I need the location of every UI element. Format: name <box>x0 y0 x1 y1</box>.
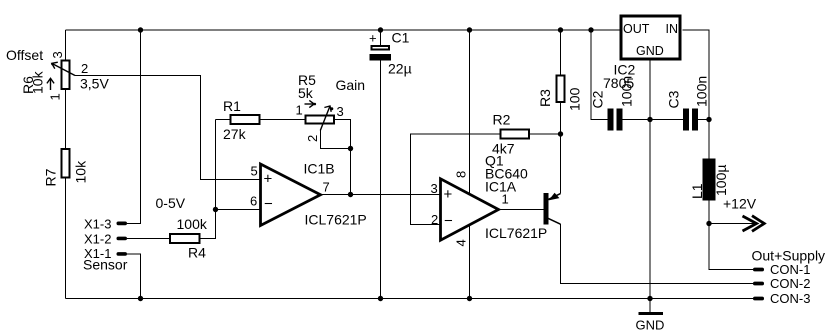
svg-text:2: 2 <box>305 135 320 142</box>
wire +12V node to supply arrow <box>709 223 756 225</box>
svg-text:7: 7 <box>323 180 330 195</box>
op-amp IC1A triangle <box>441 179 499 240</box>
svg-text:100k: 100k <box>177 216 208 232</box>
junction R4/R1/pin6 node <box>213 207 218 212</box>
wire X1-1 to ground rail <box>127 254 141 299</box>
junction +12V node <box>706 221 711 226</box>
voltage regulator IC2 box <box>621 16 680 59</box>
wire R1 left lead <box>216 119 230 121</box>
wire R2 feedback to IC1A pin2 <box>411 134 500 225</box>
svg-text:ICL7621P: ICL7621P <box>305 212 367 228</box>
resistor R3 body <box>557 76 565 103</box>
svg-text:100n: 100n <box>694 76 710 107</box>
wire R3 bottom to node <box>560 103 562 134</box>
wire GND column from IC2 <box>649 61 651 299</box>
wire C2 branch from rail <box>591 30 608 120</box>
junction R2/R3/Q1 emitter <box>558 131 563 136</box>
junction C1 on ground rail <box>378 296 383 301</box>
svg-text:8: 8 <box>454 171 469 178</box>
svg-text:3: 3 <box>337 104 344 119</box>
capacitor C3 plates <box>683 109 698 131</box>
R5 adjust arrow <box>305 100 317 107</box>
potentiometer R6 wiper arrow <box>51 62 75 75</box>
wire L1 bottom to +12V node <box>708 201 710 224</box>
svg-text:4: 4 <box>454 239 469 246</box>
wire R1 to R5 <box>260 119 305 121</box>
resistor R2 body <box>501 130 530 139</box>
wire pin6 node to IC1B <box>216 209 261 211</box>
wire IC1B output to IC1A pin3 <box>321 194 441 196</box>
wire R5 wiper to pin3 net <box>321 129 351 149</box>
wire C3 left lead <box>650 119 683 121</box>
svg-text:27k: 27k <box>223 126 247 142</box>
svg-text:Gain: Gain <box>336 77 366 93</box>
svg-text:2: 2 <box>431 212 438 227</box>
svg-text:5k: 5k <box>298 85 314 101</box>
svg-text:GND: GND <box>636 44 664 58</box>
svg-text:Offset: Offset <box>6 47 43 63</box>
svg-text:ICL7621P: ICL7621P <box>485 225 547 241</box>
wire C2 right to GND column <box>623 119 651 121</box>
capacitor C2 plates <box>608 109 623 131</box>
svg-text:CON-2: CON-2 <box>770 276 810 291</box>
op-amp IC1B triangle <box>261 164 321 226</box>
svg-text:R3: R3 <box>537 89 553 107</box>
wire R6 wiper to IC1B pin5 <box>75 76 261 180</box>
svg-text:C1: C1 <box>392 30 410 46</box>
inductor L1 body <box>703 159 716 201</box>
svg-text:3: 3 <box>431 181 438 196</box>
wire R6 bottom to R7 top <box>65 90 67 148</box>
supply arrow chevrons <box>743 216 765 232</box>
junction GND on ground rail <box>647 296 652 301</box>
junction X1-1 on ground rail <box>138 296 143 301</box>
junction C2 branch on rail <box>588 27 593 32</box>
wire IC2 IN to L1 column <box>683 30 710 159</box>
svg-text:10k: 10k <box>30 70 46 94</box>
wire R4 to IC1B pin6 node <box>200 120 216 239</box>
wire C3 right to IN column <box>698 119 709 121</box>
junction R5 net on IC1B output <box>348 192 353 197</box>
svg-text:C2: C2 <box>590 90 606 108</box>
wire Q1 emitter up to node <box>560 134 562 194</box>
svg-text:+: + <box>444 186 453 203</box>
svg-text:Sensor: Sensor <box>83 257 128 273</box>
svg-text:IN: IN <box>666 22 679 36</box>
svg-text:GND: GND <box>636 318 665 333</box>
svg-text:1: 1 <box>296 103 303 118</box>
svg-text:100µ: 100µ <box>713 165 729 196</box>
svg-text:−: − <box>444 213 453 230</box>
wire R6 top from rail <box>65 30 67 60</box>
svg-text:CON-3: CON-3 <box>770 291 810 306</box>
svg-text:4k7: 4k7 <box>492 141 515 157</box>
wire bottom ground rail <box>66 298 754 300</box>
junction C1 on top rail <box>378 27 383 32</box>
svg-text:−: − <box>264 196 273 213</box>
Q1 emitter lead with arrow <box>548 193 561 201</box>
svg-text:+12V: +12V <box>723 196 757 212</box>
potentiometer R5 wiper arrow <box>320 106 333 131</box>
svg-text:CON-1: CON-1 <box>770 262 810 277</box>
wire C1 top to rail <box>380 30 382 46</box>
junction C3/IN column <box>706 117 711 122</box>
resistor R7 body <box>62 149 70 178</box>
junction pin8 on top rail <box>467 27 472 32</box>
svg-text:C3: C3 <box>666 90 682 108</box>
Q1 collector lead <box>548 218 561 224</box>
svg-text:5: 5 <box>251 164 258 179</box>
svg-text:22µ: 22µ <box>388 61 412 77</box>
svg-text:100: 100 <box>567 87 583 111</box>
connector pad X1-1 <box>117 252 128 256</box>
svg-text:X1-3: X1-3 <box>84 217 111 232</box>
svg-text:10k: 10k <box>73 160 89 184</box>
junction R5 wiper/pin3 <box>348 146 353 151</box>
svg-text:X1-2: X1-2 <box>84 232 111 247</box>
svg-text:R2: R2 <box>493 112 511 128</box>
svg-text:6: 6 <box>250 194 257 209</box>
svg-text:R1: R1 <box>223 98 241 114</box>
wire R5 pin3 down to IC1B output <box>335 120 351 195</box>
junction C2/C3/GND <box>647 117 652 122</box>
svg-text:3,5V: 3,5V <box>80 76 109 92</box>
wire R3 top to rail <box>560 30 562 75</box>
wire IC1A pin4 to ground rail <box>469 225 471 299</box>
svg-text:+: + <box>369 31 377 46</box>
connector pad X1-2 <box>117 237 128 241</box>
svg-text:L1: L1 <box>689 183 705 199</box>
wire IC1A output to Q1 base <box>499 209 544 211</box>
ground symbol <box>639 299 664 314</box>
wire R2 right to R3/Q1 node <box>530 133 561 135</box>
connector pad CON-2 <box>753 282 764 286</box>
connector pad CON-3 <box>753 297 764 301</box>
svg-text:1: 1 <box>48 93 63 100</box>
connector pad CON-1 <box>753 268 764 272</box>
R6 adjust arrow <box>47 78 54 90</box>
wire C1 bottom to ground rail <box>380 61 382 299</box>
connector pad X1-3 <box>117 222 128 226</box>
svg-text:R7: R7 <box>43 168 59 186</box>
svg-text:+: + <box>264 171 273 188</box>
svg-text:2: 2 <box>81 61 88 76</box>
svg-text:0-5V: 0-5V <box>156 195 186 211</box>
resistor R1 body <box>231 115 260 124</box>
svg-text:IC1B: IC1B <box>304 161 335 177</box>
svg-text:IC1A: IC1A <box>485 179 517 195</box>
wire X1-2 to R4 <box>127 238 169 240</box>
wire +12V node down to CON-1 <box>709 224 753 270</box>
junction pin4 on ground rail <box>467 296 472 301</box>
svg-text:OUT: OUT <box>623 22 650 36</box>
wire IC1A pin8 from rail <box>469 30 471 194</box>
wire R7 bottom to ground rail <box>65 179 67 299</box>
wire X1-3 to +5V rail <box>127 30 141 224</box>
wire Q1 collector to CON-2 <box>561 224 754 284</box>
svg-text:3: 3 <box>50 51 65 58</box>
svg-text:100n: 100n <box>619 76 635 107</box>
capacitor C1 (electrolytic) <box>370 46 392 61</box>
potentiometer R5 body <box>306 116 335 124</box>
wire top +5V rail <box>66 29 620 31</box>
resistor R4 body <box>170 234 200 243</box>
potentiometer R6 body <box>62 61 70 90</box>
junction X1-3 on top rail <box>138 27 143 32</box>
junction R3 on top rail <box>558 27 563 32</box>
transistor Q1 base bar <box>544 193 549 225</box>
svg-text:R4: R4 <box>188 245 206 261</box>
